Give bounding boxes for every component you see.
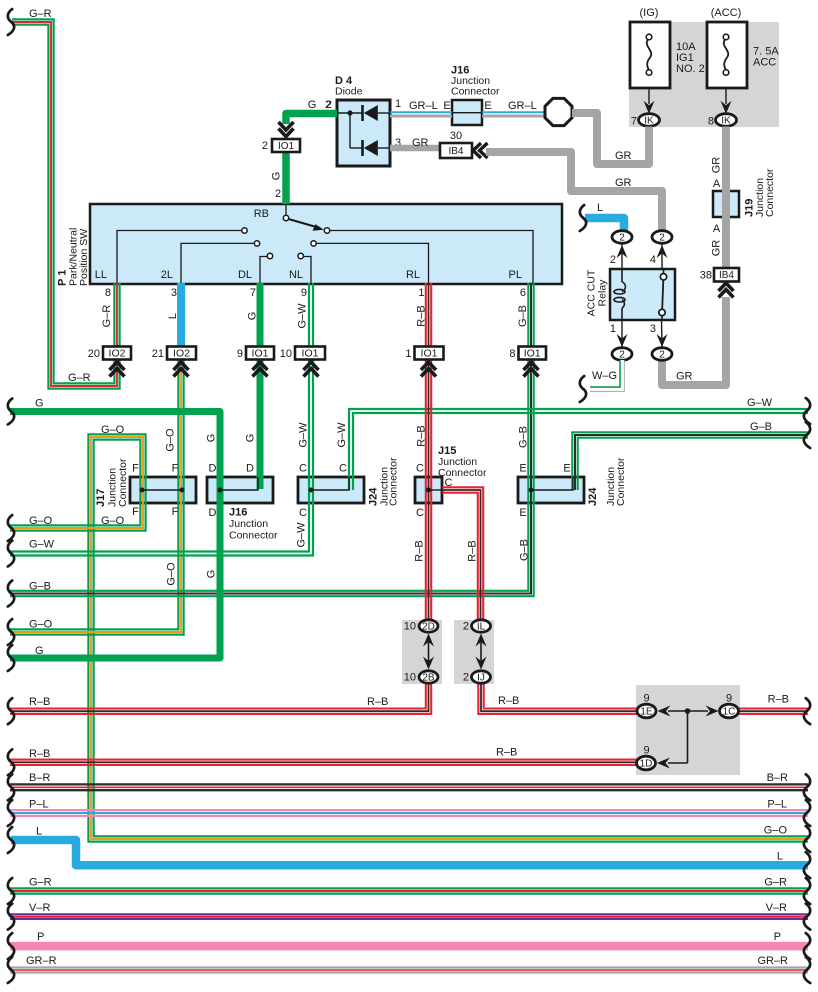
svg-text:R–B: R–B — [496, 747, 517, 759]
svg-text:F: F — [132, 506, 139, 518]
svg-text:L: L — [167, 313, 179, 319]
svg-text:R–B: R–B — [367, 696, 388, 708]
svg-text:R–B: R–B — [498, 695, 519, 707]
wire G diode feed — [286, 114, 337, 125]
wire name labels below junction connector row — [165, 522, 530, 586]
svg-text:GR: GR — [615, 150, 632, 162]
svg-text:A: A — [713, 178, 721, 190]
svg-text:NL: NL — [289, 269, 303, 281]
svg-text:RL: RL — [406, 269, 420, 281]
svg-text:IL: IL — [477, 622, 486, 633]
chevron arrows below IO connectors — [110, 362, 539, 377]
svg-text:8: 8 — [708, 116, 714, 128]
wire GR-L from D4 pin 1 to J16 junction connector — [390, 112, 452, 116]
wire G-O from J17 pin F bottom to left edge break — [10, 490, 146, 531]
wire V-R bus across page — [10, 914, 808, 919]
svg-text:G–R: G–R — [29, 877, 52, 889]
svg-text:F: F — [172, 463, 179, 475]
svg-text:R–B: R–B — [413, 540, 425, 561]
svg-text:ACC: ACC — [753, 57, 776, 69]
wire G-B from connector IO1 8 through J24 pin E to left G-B bus — [10, 360, 534, 597]
svg-text:1: 1 — [418, 287, 424, 299]
svg-text:8: 8 — [105, 287, 111, 299]
svg-text:GR: GR — [710, 240, 722, 257]
svg-text:IO1: IO1 — [524, 348, 541, 360]
wire P-L bus across page — [10, 810, 808, 816]
svg-text:Relay: Relay — [596, 279, 608, 307]
svg-text:2: 2 — [275, 188, 281, 200]
wire G-R bottom bus across page — [10, 888, 808, 893]
svg-text:GR–R: GR–R — [26, 955, 57, 967]
svg-text:A: A — [713, 223, 721, 235]
svg-text:(IG): (IG) — [640, 7, 659, 19]
svg-text:P: P — [774, 931, 781, 943]
svg-text:6: 6 — [520, 287, 526, 299]
svg-text:C: C — [299, 463, 307, 475]
svg-text:IO1: IO1 — [252, 348, 269, 360]
wire G P1 pin 7 DL to connector IO1 9 — [257, 283, 264, 347]
wire GR-L from J16 to octagon junction — [482, 112, 545, 116]
svg-text:GR–R: GR–R — [757, 955, 788, 967]
svg-text:G–O: G–O — [29, 515, 53, 527]
connector IO2 pin 20 — [103, 347, 131, 360]
P1 pin numbers 8 3 7 9 1 6 — [105, 287, 526, 299]
svg-text:Connector: Connector — [615, 457, 627, 506]
junction connector J15 — [429, 489, 443, 491]
svg-text:R–B: R–B — [29, 696, 50, 708]
svg-text:RB: RB — [254, 208, 269, 220]
connector 1E — [637, 704, 656, 718]
wire R-B from connector IO1 1 through J15 pin C to connector 2D — [426, 360, 431, 621]
svg-text:9: 9 — [301, 287, 307, 299]
svg-text:3: 3 — [650, 323, 656, 335]
svg-text:E: E — [443, 100, 450, 112]
svg-text:G–W: G–W — [336, 422, 348, 448]
svg-text:L: L — [36, 826, 42, 838]
left edge break symbols — [8, 9, 14, 983]
svg-text:E: E — [519, 507, 526, 519]
wire G thick from left break through J16 pin D back to lower left break — [10, 412, 220, 659]
wire L P1 pin 3 2L to connector IO2 21 — [177, 283, 185, 347]
svg-text:G: G — [244, 434, 256, 443]
svg-text:7: 7 — [250, 287, 256, 299]
svg-text:G: G — [270, 172, 282, 181]
svg-text:J17: J17 — [95, 489, 107, 507]
wire L blue to relay — [585, 218, 624, 230]
svg-text:2: 2 — [262, 140, 268, 152]
svg-text:2: 2 — [659, 350, 665, 361]
connector IO1 pin 2 — [272, 139, 300, 152]
wire G-R P1 pin 8 LL to connector IO2 20 — [114, 283, 119, 347]
svg-text:G–R: G–R — [764, 877, 787, 889]
svg-text:DL: DL — [238, 269, 252, 281]
svg-text:G–R: G–R — [68, 372, 91, 384]
wire G-R from top left break down to connector IO2 20 — [12, 19, 120, 388]
svg-text:R–B: R–B — [768, 694, 789, 706]
svg-text:2B: 2B — [422, 673, 435, 684]
svg-text:B–R: B–R — [767, 772, 788, 784]
svg-text:9: 9 — [237, 348, 243, 360]
svg-text:G–O: G–O — [29, 619, 53, 631]
svg-text:Connector: Connector — [117, 458, 129, 507]
svg-text:(ACC): (ACC) — [711, 7, 742, 19]
svg-text:Connector: Connector — [764, 168, 776, 217]
wire G-O from connector IO2 21 through J17 pin F to left G-O bus — [10, 360, 184, 635]
wire R-B from J15 pin C to connector IL — [442, 487, 483, 620]
svg-text:G–O: G–O — [165, 428, 177, 452]
fuse 10A IG1 NO.2 — [630, 22, 670, 88]
svg-text:10: 10 — [404, 672, 416, 684]
svg-text:9: 9 — [726, 693, 732, 705]
svg-text:R–B: R–B — [416, 305, 428, 326]
wire R-B from connector 2B to left R-B bus — [10, 683, 431, 714]
svg-text:G: G — [205, 570, 217, 579]
gray connector panels — [629, 22, 779, 127]
svg-text:GR: GR — [412, 137, 429, 149]
svg-text:IJ: IJ — [477, 673, 485, 684]
svg-text:IO1: IO1 — [302, 348, 319, 360]
svg-text:W–G: W–G — [592, 370, 617, 382]
svg-text:Connector: Connector — [229, 530, 278, 542]
fuse 7.5A ACC — [707, 22, 747, 88]
svg-text:F: F — [132, 463, 139, 475]
wire W-G from relay pin 1 to break — [590, 360, 622, 389]
wire R-B from connector 1C to right edge break — [738, 709, 808, 714]
svg-text:9: 9 — [643, 745, 649, 757]
svg-text:V–R: V–R — [29, 902, 50, 914]
svg-text:G–B: G–B — [29, 581, 51, 593]
svg-text:8: 8 — [509, 348, 515, 360]
wire G-B from J24 pin E up to right edge G-B bus — [572, 432, 808, 490]
svg-text:V–R: V–R — [766, 902, 787, 914]
wire G below IO1 2 connector to P1 — [282, 139, 290, 204]
chevron into connector IO1 2 — [279, 122, 294, 137]
junction connector J16 (middle) — [220, 477, 258, 490]
wire name labels below P1 — [101, 303, 529, 329]
svg-text:GR: GR — [710, 157, 722, 174]
connector 1D — [637, 756, 656, 770]
svg-text:1C: 1C — [723, 707, 736, 718]
svg-text:4: 4 — [650, 254, 656, 266]
svg-text:GR: GR — [615, 177, 632, 189]
wire R-B P1 pin 1 RL to connector IO1 1 — [426, 283, 431, 347]
svg-text:IO1: IO1 — [278, 141, 295, 152]
svg-text:10: 10 — [404, 621, 416, 633]
wire P pink bus across page — [10, 942, 808, 951]
svg-text:G–O: G–O — [764, 825, 788, 837]
svg-text:1D: 1D — [640, 759, 653, 770]
svg-text:2: 2 — [463, 672, 469, 684]
svg-text:GR–L: GR–L — [508, 100, 537, 112]
svg-text:G–R: G–R — [29, 8, 52, 20]
svg-text:30: 30 — [450, 130, 462, 142]
svg-text:G–B: G–B — [517, 305, 529, 327]
svg-text:Diode: Diode — [335, 86, 363, 98]
svg-text:3: 3 — [171, 287, 177, 299]
svg-text:G–O: G–O — [101, 515, 125, 527]
wire G-B P1 pin 6 PL to connector IO1 8 — [528, 283, 533, 347]
connector IK pin 7 — [639, 114, 660, 127]
junction connector J24 (right) — [531, 477, 573, 490]
connector IK pin 8 — [716, 114, 737, 127]
svg-text:Connector: Connector — [388, 457, 400, 506]
svg-text:G–B: G–B — [517, 426, 529, 448]
svg-text:C: C — [299, 507, 307, 519]
wire name labels above junction connector row — [165, 422, 530, 452]
svg-text:D: D — [246, 463, 254, 475]
svg-text:B–R: B–R — [29, 772, 50, 784]
svg-text:L: L — [777, 851, 783, 863]
wire G-W P1 pin 9 NL to connector IO1 10 — [309, 283, 313, 347]
svg-text:10: 10 — [280, 348, 292, 360]
svg-text:G–W: G–W — [297, 303, 309, 329]
svg-text:G–O: G–O — [165, 562, 177, 586]
svg-text:G: G — [308, 99, 317, 111]
wire G-W from J24 pin C up to right edge G-W bus — [349, 409, 808, 490]
svg-text:F: F — [172, 506, 179, 518]
svg-text:IK: IK — [644, 116, 654, 127]
wire GR relay pin4 to IB4 30 — [486, 152, 662, 231]
svg-text:Connector: Connector — [438, 467, 487, 479]
svg-text:IO2: IO2 — [173, 348, 190, 360]
connector IB4 pin 30 with chevron — [440, 143, 472, 158]
svg-text:2D: 2D — [422, 622, 435, 633]
junction connector J24 (left) — [311, 477, 349, 490]
svg-text:2: 2 — [619, 350, 625, 361]
svg-text:1: 1 — [610, 323, 616, 335]
svg-text:Position SW: Position SW — [78, 229, 90, 286]
svg-text:J24: J24 — [587, 487, 599, 506]
svg-text:G–W: G–W — [29, 539, 55, 551]
relay input connectors 2 and 2 — [612, 231, 632, 244]
svg-text:E: E — [563, 463, 570, 475]
svg-text:PL: PL — [509, 269, 522, 281]
wire GR fuse IG to octagon — [572, 113, 649, 164]
svg-text:2: 2 — [659, 233, 665, 244]
svg-text:7: 7 — [631, 116, 637, 128]
svg-text:G–R: G–R — [101, 305, 113, 328]
svg-text:D: D — [209, 463, 217, 475]
connector IO2 pin 21 — [167, 347, 196, 360]
svg-text:GR: GR — [676, 371, 693, 383]
svg-text:IB4: IB4 — [448, 146, 463, 157]
svg-text:1: 1 — [395, 98, 401, 110]
connector IO1 pin 1 — [415, 347, 444, 360]
svg-text:R–B: R–B — [415, 425, 427, 446]
svg-text:NO. 2: NO. 2 — [676, 63, 705, 75]
svg-text:J16: J16 — [229, 507, 247, 519]
svg-text:G: G — [247, 312, 259, 321]
svg-text:G: G — [35, 398, 44, 410]
wire G-W from connector IO1 10 through J24 pin C to left G-W bus — [10, 360, 313, 556]
wire R-B from connector IJ to connector 1E — [478, 683, 638, 714]
connector IO1 pin 9 — [246, 347, 274, 360]
relay output connectors 2 and 2 — [612, 348, 632, 361]
svg-text:L: L — [597, 202, 603, 214]
svg-text:LL: LL — [95, 269, 107, 281]
svg-text:C: C — [339, 463, 347, 475]
right edge break symbols — [804, 398, 810, 983]
svg-text:2: 2 — [619, 233, 625, 244]
wire GR relay pin3 — [662, 297, 726, 385]
svg-text:Junction: Junction — [229, 518, 268, 530]
wire G-O from J17 pin F via left vertical to bottom G-O bus — [88, 434, 808, 841]
svg-text:P: P — [37, 931, 44, 943]
svg-text:2: 2 — [610, 254, 616, 266]
svg-text:G–W: G–W — [295, 522, 307, 548]
svg-text:G–W: G–W — [747, 397, 773, 409]
svg-text:G: G — [206, 434, 218, 443]
svg-text:P–L: P–L — [29, 799, 49, 811]
svg-text:2L: 2L — [161, 269, 173, 281]
connector 1C — [720, 704, 739, 718]
svg-text:GR–L: GR–L — [409, 100, 438, 112]
svg-text:IO2: IO2 — [109, 348, 126, 360]
svg-text:9: 9 — [643, 693, 649, 705]
svg-text:G–O: G–O — [101, 424, 125, 436]
octagon junction symbol — [545, 98, 572, 125]
component boxes — [90, 204, 562, 284]
svg-text:IB4: IB4 — [719, 270, 734, 281]
wire GR diode to IB4 — [390, 145, 440, 152]
svg-text:P–L: P–L — [767, 799, 787, 811]
svg-text:C: C — [416, 463, 424, 475]
wire R-B from left break to connector 1D — [10, 760, 637, 765]
svg-text:Connector: Connector — [451, 86, 500, 98]
svg-text:IO1: IO1 — [421, 348, 438, 360]
connector IO1 pin 10 — [295, 347, 325, 360]
svg-text:C: C — [416, 507, 424, 519]
wire L blue bus with jog — [11, 840, 808, 865]
svg-text:2: 2 — [463, 621, 469, 633]
svg-text:G–B: G–B — [750, 421, 772, 433]
svg-text:21: 21 — [152, 348, 164, 360]
connector IO1 pin 8 — [519, 347, 547, 360]
svg-text:1: 1 — [405, 348, 411, 360]
svg-text:G–W: G–W — [297, 422, 309, 448]
wire B-R bus across page — [10, 784, 808, 790]
wire GR-R bus across page — [10, 968, 808, 973]
wire G from connector IO1 9 down to J16 pin D — [257, 360, 264, 490]
P1 switch internal contacts and arm — [95, 205, 533, 283]
wire GR fuse ACC down to IB4 38 — [722, 127, 730, 269]
svg-text:E: E — [484, 100, 491, 112]
svg-text:R–B: R–B — [466, 540, 478, 561]
svg-text:G–B: G–B — [518, 539, 530, 561]
svg-text:E: E — [519, 463, 526, 475]
svg-text:D: D — [209, 507, 217, 519]
svg-text:IK: IK — [721, 116, 731, 127]
svg-text:2: 2 — [326, 99, 332, 111]
svg-text:G: G — [35, 645, 44, 657]
svg-text:1E: 1E — [640, 707, 653, 718]
svg-text:20: 20 — [88, 348, 100, 360]
svg-text:R–B: R–B — [29, 748, 50, 760]
svg-text:38: 38 — [700, 270, 712, 282]
